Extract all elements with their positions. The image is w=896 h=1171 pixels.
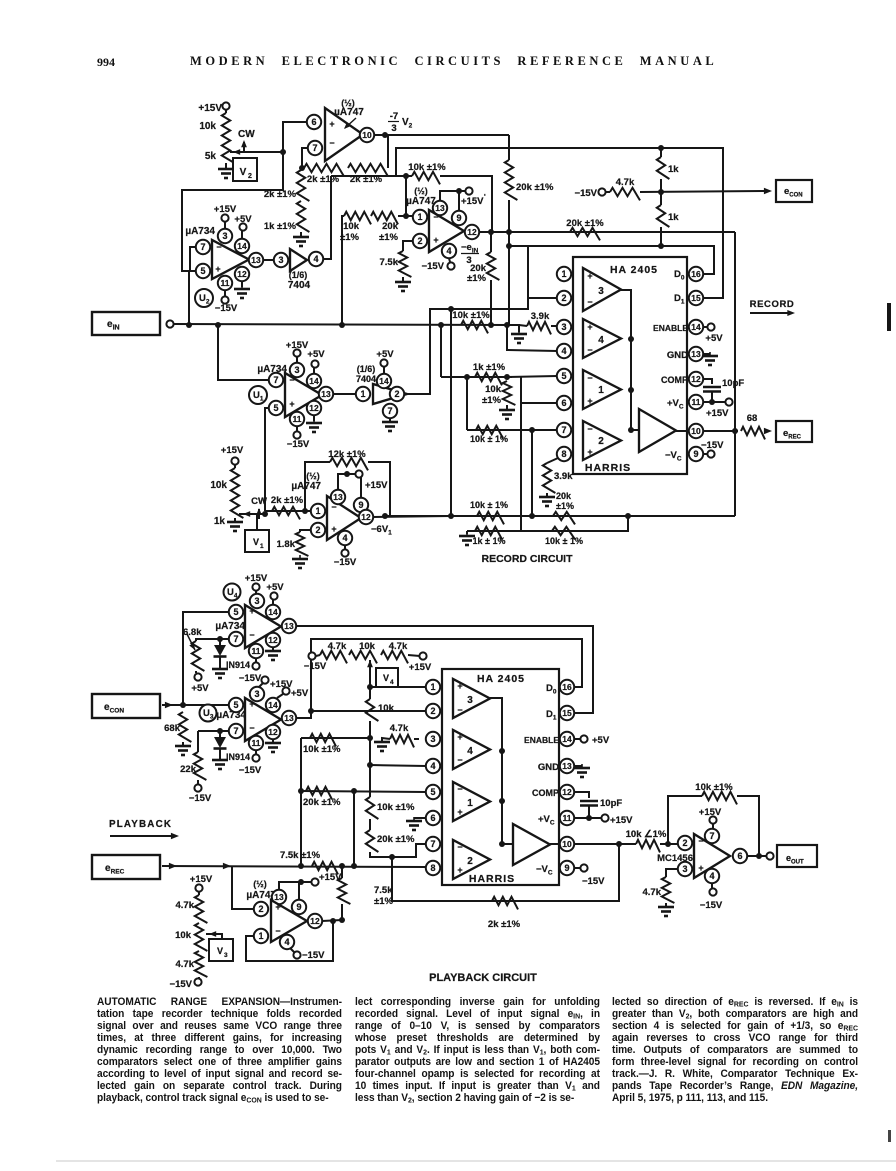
- svg-text:9: 9: [456, 213, 461, 223]
- svg-text:3: 3: [254, 689, 259, 699]
- svg-text:4: 4: [467, 746, 473, 757]
- svg-text:9: 9: [564, 863, 569, 873]
- svg-text:−: −: [457, 755, 462, 765]
- svg-text:−15V: −15V: [700, 900, 723, 911]
- svg-text:+5V: +5V: [307, 349, 325, 360]
- svg-text:3: 3: [598, 286, 604, 297]
- svg-text:13: 13: [321, 389, 331, 399]
- svg-text:15: 15: [562, 708, 572, 718]
- svg-text:4: 4: [561, 346, 566, 356]
- svg-text:HARRIS: HARRIS: [469, 873, 515, 885]
- svg-text:+15V: +15V: [221, 445, 244, 456]
- svg-text:2k ±1%: 2k ±1%: [264, 189, 297, 200]
- svg-text:13: 13: [691, 349, 701, 359]
- svg-text:1: 1: [315, 506, 320, 516]
- svg-text:−15V: −15V: [422, 261, 445, 272]
- svg-text:+5V: +5V: [376, 349, 394, 360]
- svg-text:9: 9: [358, 500, 363, 510]
- svg-text:3.9k: 3.9k: [554, 471, 573, 482]
- svg-text:+5V: +5V: [291, 688, 309, 699]
- svg-text:10k: 10k: [485, 384, 502, 395]
- svg-text:ENABLE: ENABLE: [524, 735, 559, 745]
- svg-text:±1%: ±1%: [379, 232, 398, 243]
- svg-text:+: +: [587, 396, 592, 406]
- svg-text:RECORD: RECORD: [750, 299, 795, 310]
- svg-text:11: 11: [563, 813, 572, 823]
- svg-text:MC1456: MC1456: [657, 853, 693, 864]
- svg-text:12: 12: [361, 512, 371, 522]
- svg-text:5: 5: [430, 787, 435, 797]
- svg-text:6: 6: [561, 398, 566, 408]
- svg-text:7404: 7404: [288, 280, 311, 291]
- svg-text:7.5k: 7.5k: [374, 885, 393, 896]
- svg-text:12: 12: [309, 403, 319, 413]
- svg-text:10k: 10k: [199, 121, 216, 132]
- svg-text:(1/6): (1/6): [357, 364, 376, 374]
- svg-text:+: +: [587, 322, 592, 332]
- svg-text:9: 9: [296, 902, 301, 912]
- svg-text:7.5k: 7.5k: [380, 257, 399, 268]
- svg-text:10k ±1%: 10k ±1%: [303, 744, 341, 755]
- svg-text:−15V: −15V: [239, 765, 262, 776]
- svg-text:3: 3: [254, 596, 259, 606]
- svg-text:1: 1: [258, 931, 263, 941]
- svg-text:−: −: [587, 373, 592, 383]
- svg-text:1k ±1%: 1k ±1%: [473, 362, 506, 373]
- svg-text:7: 7: [387, 406, 392, 416]
- svg-text:−15V: −15V: [582, 876, 605, 887]
- svg-text:2: 2: [258, 904, 263, 914]
- svg-text:+: +: [698, 863, 703, 873]
- svg-text:3.9k: 3.9k: [531, 311, 550, 322]
- svg-text:10k ±1%: 10k ±1%: [377, 802, 415, 813]
- svg-text:−eIN: −eIN: [461, 242, 479, 255]
- svg-text:2k ±1%: 2k ±1%: [488, 919, 521, 930]
- svg-text:+: +: [329, 119, 334, 129]
- svg-text:1: 1: [430, 682, 435, 692]
- svg-text:4: 4: [430, 761, 435, 771]
- svg-text:11: 11: [293, 414, 302, 424]
- svg-text:+: +: [457, 681, 462, 691]
- svg-text:+15V: +15V: [409, 662, 432, 673]
- svg-text:−15V: −15V: [304, 661, 327, 672]
- svg-text:10: 10: [691, 426, 701, 436]
- svg-text:−: −: [457, 784, 462, 794]
- svg-text:11: 11: [252, 738, 261, 748]
- svg-text:+15V: +15V: [190, 874, 213, 885]
- svg-text:2: 2: [417, 236, 422, 246]
- svg-text:3: 3: [430, 734, 435, 744]
- svg-text:4.7k: 4.7k: [643, 887, 662, 898]
- svg-text:GND: GND: [667, 350, 688, 361]
- svg-text:1k ± 1%: 1k ± 1%: [473, 536, 506, 546]
- svg-text:10k ∠1%: 10k ∠1%: [626, 829, 667, 840]
- svg-text:−: −: [698, 836, 703, 846]
- svg-text:+: +: [215, 264, 220, 274]
- svg-text:10k ±1%: 10k ±1%: [452, 310, 490, 321]
- svg-text:7: 7: [233, 726, 238, 736]
- svg-text:+15V: +15V: [706, 408, 729, 419]
- svg-text:20k: 20k: [382, 221, 399, 232]
- svg-text:3: 3: [561, 322, 566, 332]
- svg-text:1: 1: [260, 543, 264, 550]
- svg-text:4.7k: 4.7k: [328, 641, 347, 652]
- svg-text:+: +: [457, 732, 462, 742]
- svg-text:3: 3: [682, 864, 687, 874]
- svg-text:6: 6: [311, 117, 316, 127]
- svg-text:V: V: [217, 946, 223, 956]
- svg-text:+: +: [457, 807, 462, 817]
- svg-text:1: 1: [360, 389, 365, 399]
- svg-text:1: 1: [561, 269, 566, 279]
- svg-text:13: 13: [333, 492, 343, 502]
- svg-text:1k: 1k: [214, 516, 226, 527]
- svg-text:4.7k: 4.7k: [176, 900, 195, 911]
- svg-text:2: 2: [467, 856, 473, 867]
- svg-text:4: 4: [390, 679, 394, 686]
- svg-text:2: 2: [682, 838, 687, 848]
- svg-text:10pF: 10pF: [600, 798, 622, 809]
- svg-text:4.7k: 4.7k: [389, 641, 408, 652]
- svg-text:4.7k: 4.7k: [616, 177, 635, 188]
- svg-text:1: 1: [598, 385, 604, 396]
- svg-text:1.8k: 1.8k: [277, 539, 296, 550]
- svg-text:PLAYBACK: PLAYBACK: [109, 819, 172, 830]
- svg-text:14: 14: [268, 700, 278, 710]
- svg-text:4.7k: 4.7k: [390, 723, 409, 734]
- svg-text:ENABLE: ENABLE: [653, 323, 688, 333]
- svg-text:12: 12: [310, 916, 320, 926]
- svg-text:1: 1: [467, 798, 473, 809]
- svg-text:10k ± 1%: 10k ± 1%: [545, 536, 583, 546]
- svg-text:3: 3: [391, 123, 396, 134]
- svg-text:+: +: [587, 447, 592, 457]
- svg-text:−: −: [457, 842, 462, 852]
- svg-text:−15V: −15V: [239, 673, 262, 684]
- svg-text:2k ±1%: 2k ±1%: [350, 174, 383, 185]
- svg-text:7: 7: [561, 425, 566, 435]
- svg-text:6: 6: [737, 851, 742, 861]
- svg-text:7404: 7404: [356, 374, 376, 384]
- svg-text:12: 12: [562, 787, 572, 797]
- svg-text:6.8k: 6.8k: [183, 627, 202, 638]
- svg-text:3: 3: [222, 231, 227, 241]
- svg-text:IN914: IN914: [226, 660, 250, 670]
- svg-text:2: 2: [430, 706, 435, 716]
- svg-text:−15V: −15V: [189, 793, 212, 804]
- svg-text:+5V: +5V: [592, 735, 610, 746]
- svg-text:4: 4: [446, 246, 451, 256]
- svg-text:COMP: COMP: [532, 788, 559, 798]
- svg-text:4: 4: [342, 533, 347, 543]
- svg-text:1: 1: [417, 212, 422, 222]
- svg-text:5: 5: [233, 607, 238, 617]
- svg-text:10k ±1%: 10k ±1%: [695, 782, 733, 793]
- svg-text:−: −: [216, 242, 221, 252]
- svg-text:3: 3: [224, 952, 228, 959]
- svg-text:µA734: µA734: [185, 226, 215, 237]
- svg-text:5: 5: [200, 266, 205, 276]
- svg-text:10k: 10k: [210, 480, 227, 491]
- svg-text:(½): (½): [306, 471, 320, 481]
- svg-text:+: +: [249, 606, 254, 616]
- svg-text:−: −: [587, 424, 592, 434]
- svg-text:−15V: −15V: [701, 440, 724, 451]
- svg-text:−15V: −15V: [170, 979, 193, 990]
- svg-text:HA 2405: HA 2405: [610, 264, 658, 276]
- svg-text:10k ±1%: 10k ±1%: [408, 162, 446, 173]
- svg-text:12k ±1%: 12k ±1%: [328, 449, 366, 460]
- svg-text:(1/6): (1/6): [289, 270, 308, 280]
- svg-text:22k: 22k: [180, 764, 197, 775]
- svg-text:14: 14: [237, 241, 247, 251]
- svg-text:10: 10: [362, 130, 372, 140]
- svg-text:1k: 1k: [668, 212, 679, 223]
- svg-text:CW: CW: [238, 129, 255, 140]
- svg-text:11: 11: [221, 278, 230, 288]
- svg-text:HA 2405: HA 2405: [477, 673, 525, 685]
- svg-text:−: −: [587, 297, 592, 307]
- svg-text:4: 4: [598, 335, 604, 346]
- svg-text:+: +: [331, 524, 336, 534]
- svg-text:+15V: +15V: [198, 103, 222, 114]
- svg-text:+5V: +5V: [266, 582, 284, 593]
- svg-text:14: 14: [691, 322, 701, 332]
- svg-text:+: +: [587, 271, 592, 281]
- svg-text:−15V: −15V: [302, 950, 325, 961]
- svg-text:13: 13: [251, 255, 261, 265]
- svg-text:14: 14: [268, 607, 278, 617]
- svg-text:−: −: [275, 926, 280, 936]
- svg-text:+15V: +15V: [365, 480, 388, 491]
- svg-text:4.7k: 4.7k: [176, 959, 195, 970]
- svg-text:-7: -7: [390, 111, 398, 122]
- svg-text:20k ±1%: 20k ±1%: [516, 182, 554, 193]
- svg-text:+15V: +15V: [245, 573, 268, 584]
- svg-text:20k ±1%: 20k ±1%: [377, 834, 415, 845]
- svg-text:−15V: −15V: [215, 303, 238, 314]
- svg-text:8: 8: [561, 449, 566, 459]
- svg-text:V2: V2: [402, 117, 413, 130]
- svg-text:3: 3: [278, 255, 283, 265]
- svg-text:10: 10: [562, 839, 572, 849]
- svg-text:16: 16: [691, 269, 701, 279]
- svg-text:20k ±1%: 20k ±1%: [566, 218, 604, 229]
- svg-text:12: 12: [691, 374, 701, 384]
- svg-text:8: 8: [430, 863, 435, 873]
- svg-text:2: 2: [598, 436, 604, 447]
- svg-text:2: 2: [561, 293, 566, 303]
- svg-text:+15V: +15V: [461, 196, 484, 207]
- svg-text:−: −: [249, 630, 254, 640]
- svg-text:10k: 10k: [343, 221, 360, 232]
- svg-text:7.5k ±1%: 7.5k ±1%: [280, 850, 321, 861]
- svg-text:7: 7: [312, 143, 317, 153]
- svg-text:13: 13: [284, 621, 294, 631]
- svg-text:4: 4: [284, 937, 289, 947]
- svg-text:RECORD CIRCUIT: RECORD CIRCUIT: [482, 553, 574, 565]
- svg-text:COMP: COMP: [661, 375, 688, 385]
- svg-text:16: 16: [562, 682, 572, 692]
- svg-text:1k: 1k: [668, 164, 679, 175]
- svg-text:−15V: −15V: [334, 557, 357, 568]
- svg-text:20k ±1%: 20k ±1%: [303, 797, 341, 808]
- svg-text:V: V: [383, 673, 389, 683]
- svg-text:11: 11: [252, 646, 261, 656]
- svg-text:12: 12: [237, 269, 247, 279]
- svg-text:2: 2: [315, 525, 320, 535]
- svg-text:+: +: [433, 235, 438, 245]
- svg-text:−: −: [587, 345, 592, 355]
- svg-text:68: 68: [747, 413, 758, 424]
- svg-text:−15V: −15V: [575, 188, 598, 199]
- svg-text:4: 4: [313, 254, 318, 264]
- svg-text:3: 3: [294, 365, 299, 375]
- svg-text:2k ±1%: 2k ±1%: [307, 174, 340, 185]
- svg-text:HARRIS: HARRIS: [585, 462, 631, 474]
- svg-text:9: 9: [693, 449, 698, 459]
- svg-text:V: V: [240, 167, 247, 178]
- svg-text:+5V: +5V: [191, 683, 209, 694]
- svg-text:IN914: IN914: [226, 752, 250, 762]
- svg-text:−: −: [289, 375, 294, 385]
- svg-text:13: 13: [284, 713, 294, 723]
- svg-text:14: 14: [562, 734, 572, 744]
- svg-text:−: −: [329, 138, 334, 148]
- svg-text:+: +: [457, 865, 462, 875]
- svg-text:µA747: µA747: [406, 196, 436, 207]
- svg-text:3: 3: [467, 695, 473, 706]
- svg-text:±1%: ±1%: [467, 273, 486, 284]
- svg-text:−15V: −15V: [287, 439, 310, 450]
- svg-text:5: 5: [561, 371, 566, 381]
- svg-text:5: 5: [233, 700, 238, 710]
- svg-text:µA747: µA747: [291, 481, 321, 492]
- svg-text:−: −: [249, 723, 254, 733]
- svg-text:−6V1: −6V1: [371, 524, 392, 537]
- svg-text:±1%: ±1%: [556, 501, 574, 511]
- svg-text:11: 11: [692, 397, 701, 407]
- svg-text:10k: 10k: [359, 641, 376, 652]
- svg-text:7: 7: [709, 831, 714, 841]
- svg-text:PLAYBACK CIRCUIT: PLAYBACK CIRCUIT: [429, 972, 537, 984]
- svg-text:20k: 20k: [556, 491, 572, 501]
- svg-text:+: +: [275, 902, 280, 912]
- svg-text:12: 12: [268, 635, 278, 645]
- svg-text:6: 6: [430, 813, 435, 823]
- svg-text:14: 14: [309, 376, 319, 386]
- svg-text:7: 7: [430, 839, 435, 849]
- svg-text:2: 2: [248, 173, 252, 180]
- svg-text:68k: 68k: [164, 723, 181, 734]
- svg-text:(½): (½): [253, 879, 267, 889]
- svg-text:7: 7: [233, 634, 238, 644]
- svg-text:10k: 10k: [175, 930, 192, 941]
- svg-text:10k ± 1%: 10k ± 1%: [470, 500, 508, 510]
- svg-text:GND: GND: [538, 762, 559, 773]
- svg-text:+15V: +15V: [610, 815, 633, 826]
- svg-text:+: +: [289, 399, 294, 409]
- svg-text:−: −: [433, 212, 438, 222]
- svg-text:10k ± 1%: 10k ± 1%: [470, 434, 508, 444]
- svg-text:12: 12: [467, 227, 477, 237]
- svg-text:µA734: µA734: [215, 621, 245, 632]
- svg-text:7: 7: [273, 375, 278, 385]
- svg-text:CW: CW: [251, 496, 267, 507]
- svg-text:5: 5: [273, 403, 278, 413]
- svg-text:+5V: +5V: [705, 333, 723, 344]
- svg-text:±1%: ±1%: [374, 896, 393, 907]
- svg-text:+: +: [249, 699, 254, 709]
- svg-text:+15V: +15V: [319, 872, 342, 883]
- svg-text:10pF: 10pF: [722, 378, 744, 389]
- svg-text:−: −: [457, 705, 462, 715]
- svg-text:+15V: +15V: [214, 204, 237, 215]
- svg-text:±1%: ±1%: [482, 395, 501, 406]
- svg-text:': ': [484, 194, 486, 201]
- svg-text:13: 13: [274, 892, 284, 902]
- svg-text:7: 7: [200, 242, 205, 252]
- svg-text:14: 14: [379, 376, 389, 386]
- svg-text:(½): (½): [414, 186, 428, 196]
- svg-text:5k: 5k: [205, 151, 217, 162]
- svg-text:V: V: [253, 537, 259, 547]
- svg-text:10k: 10k: [378, 703, 395, 714]
- svg-text:15: 15: [691, 293, 701, 303]
- svg-text:4: 4: [709, 871, 714, 881]
- svg-text:12: 12: [268, 727, 278, 737]
- svg-text:1k ±1%: 1k ±1%: [264, 221, 297, 232]
- svg-text:2: 2: [394, 389, 399, 399]
- svg-text:±1%: ±1%: [340, 232, 359, 243]
- svg-text:2k ±1%: 2k ±1%: [271, 495, 304, 506]
- svg-text:13: 13: [562, 761, 572, 771]
